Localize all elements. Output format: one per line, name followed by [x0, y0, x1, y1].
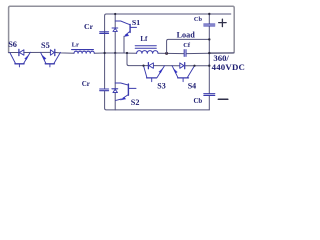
capacitor Cr bottom — [100, 89, 109, 91]
switch S5 diode — [50, 49, 54, 55]
inductor Lf core bars — [135, 46, 156, 48]
inductor Lr coil — [74, 51, 94, 53]
wire S3 S4 branch — [127, 53, 209, 66]
svg-text:Lr: Lr — [72, 41, 79, 48]
node bus load junction — [208, 38, 210, 40]
switch S3 diode — [148, 63, 153, 69]
switch S6 transistor — [10, 52, 31, 67]
capacitor Cr top — [100, 32, 109, 34]
svg-text:S3: S3 — [157, 81, 165, 90]
svg-text:S4: S4 — [188, 82, 196, 91]
svg-text:S6: S6 — [8, 40, 17, 49]
wire Cr leg lower — [105, 53, 210, 110]
svg-text:Cf: Cf — [183, 42, 191, 49]
wire DC bus vertical — [208, 14, 210, 110]
svg-text:440VDC: 440VDC — [212, 62, 245, 72]
node S3S4 top — [126, 52, 128, 54]
node Lf output junction — [165, 52, 168, 55]
svg-text:S1: S1 — [132, 18, 140, 27]
inductor Lf coil — [137, 51, 158, 54]
switch S4 diode — [180, 63, 185, 69]
wire top rail — [105, 14, 231, 53]
svg-text:Cr: Cr — [84, 22, 94, 31]
wire load branch — [167, 39, 210, 53]
switch S5 transistor — [41, 52, 61, 67]
switch S6 diode — [19, 49, 24, 55]
wire main mid line — [9, 52, 234, 53]
svg-text:Cb: Cb — [194, 16, 203, 23]
transistor S2 diode branch — [114, 53, 116, 110]
capacitor Cb bottom — [204, 94, 215, 96]
switch S3 transistor — [144, 66, 165, 82]
diode of S1 — [112, 28, 118, 31]
node S3 left attach — [142, 65, 144, 67]
svg-text:Lf: Lf — [140, 35, 148, 43]
wire outer gray loop — [9, 6, 235, 53]
node S1 top — [114, 13, 116, 15]
diode of S2 — [112, 89, 118, 93]
capacitor Cb top — [204, 24, 215, 26]
node bus S3S4 junction — [208, 65, 210, 67]
transistor S1 — [115, 21, 136, 53]
svg-text:S5: S5 — [41, 41, 50, 50]
capacitor Cf — [184, 50, 186, 57]
svg-text:Cb: Cb — [194, 98, 203, 105]
transistor S2 — [115, 83, 136, 100]
node bus mid junction — [208, 52, 210, 54]
svg-text:S2: S2 — [131, 98, 140, 107]
wire Cr top cap gap — [104, 14, 106, 54]
switch S4 transistor — [172, 66, 195, 82]
node S1 mid cross — [114, 52, 116, 54]
minus sign — [218, 98, 228, 100]
svg-text:Cr: Cr — [82, 80, 90, 88]
node S4 right attach — [193, 65, 195, 67]
plus sign — [219, 19, 226, 27]
svg-text:Load: Load — [177, 30, 196, 39]
transistor S1 diode branch — [114, 14, 116, 53]
node bus top junction — [208, 13, 210, 15]
node Cr mid cross — [103, 52, 105, 54]
